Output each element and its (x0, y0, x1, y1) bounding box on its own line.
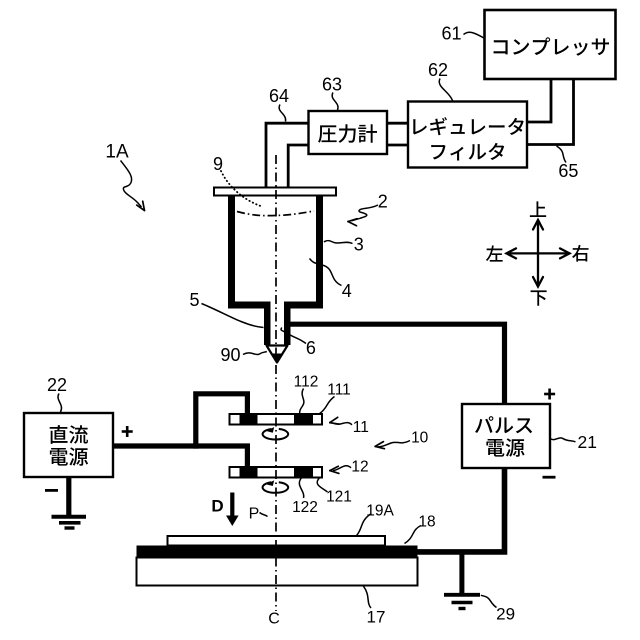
DC supply text line2 (50, 447, 88, 465)
leader 22 (58, 394, 62, 413)
syringe right wall (316, 196, 323, 309)
svg-text:4: 4 (342, 281, 352, 301)
leader 4 (310, 259, 342, 286)
rotation arrow lower (263, 480, 289, 492)
pipe 64 upper line (flange to gauge) (266, 123, 309, 188)
pressure gauge text (318, 124, 377, 143)
wire nozzle to pulse supply (289, 324, 505, 404)
DC supply ground wire (66, 477, 71, 515)
wire pulse supply to stage layer 18 (412, 468, 505, 552)
pulse supply text line2 (486, 438, 524, 456)
DC ground symbol (52, 517, 87, 528)
leader 61 (464, 32, 485, 38)
arrow D (downward movement) (226, 493, 239, 527)
pipe 65 upper line (regulator to compressor) (527, 79, 551, 122)
leader 18 (405, 526, 422, 544)
svg-text:112: 112 (294, 374, 319, 391)
leader 6 (281, 328, 306, 344)
svg-text:61: 61 (441, 23, 461, 43)
pipe gauge to regulator upper (387, 122, 408, 125)
svg-text:64: 64 (269, 86, 289, 106)
regulator-filter box 62 (408, 102, 527, 168)
liquid meniscus dash-dot line 9 (237, 211, 314, 216)
svg-text:12: 12 (351, 459, 368, 476)
leader 90 (243, 352, 267, 355)
leader 3 (324, 240, 353, 243)
plus sign DC supply (122, 426, 133, 437)
wire DC supply to lower electrode 12 (113, 446, 247, 469)
svg-text:29: 29 (496, 605, 515, 624)
DC supply text line1 (50, 425, 88, 444)
DC power supply box 22 (24, 413, 113, 477)
svg-text:5: 5 (189, 290, 199, 310)
svg-text:11: 11 (353, 419, 369, 436)
pulse power supply box 21 (462, 404, 550, 468)
minus sign DC supply (45, 489, 58, 492)
svg-text:122: 122 (292, 499, 318, 516)
stage 17 (137, 558, 418, 586)
svg-text:D: D (211, 497, 223, 516)
ground stub wire 29 (459, 552, 464, 594)
leader 62 (439, 79, 452, 101)
leader arrow 10 (375, 441, 410, 449)
leader arrow 1A (121, 161, 145, 211)
center axis dash-dot line C (275, 155, 277, 611)
svg-text:C: C (268, 611, 280, 628)
needle cone 90 outline (267, 346, 288, 363)
leader 121 (317, 478, 327, 492)
substrate 19A (168, 536, 386, 546)
syringe left shoulder (228, 302, 271, 309)
conductive layer 18 (137, 546, 418, 558)
svg-text:6: 6 (306, 338, 316, 358)
leader arrow 11 (330, 417, 352, 425)
regulator text line1 (413, 117, 524, 135)
syringe right shoulder (284, 302, 323, 309)
svg-text:2: 2 (378, 191, 388, 211)
minus sign pulse supply (543, 476, 556, 479)
plus sign pulse supply (544, 389, 555, 400)
leader 19A (357, 514, 372, 536)
filter text line2 (431, 143, 504, 161)
pulse supply text line1 (475, 416, 532, 433)
svg-text:22: 22 (47, 375, 67, 395)
leader 112 (300, 389, 304, 414)
leader 17 (364, 586, 372, 608)
svg-text:19A: 19A (366, 503, 394, 520)
compass label left (486, 245, 503, 261)
nozzle left wall 5 (264, 302, 271, 346)
svg-text:P: P (249, 506, 260, 523)
compass label up (530, 201, 546, 217)
svg-text:17: 17 (367, 608, 386, 627)
wire branch to upper electrode 11 (196, 394, 248, 449)
leader 5 (202, 304, 264, 328)
leader 65 (557, 146, 567, 163)
lower electrode bar 12 (230, 466, 323, 479)
pipe gauge to regulator lower (387, 144, 408, 147)
leader arrow 12 (330, 466, 351, 474)
compass label right (572, 245, 588, 262)
svg-text:65: 65 (558, 161, 578, 181)
pressure gauge box 63 (309, 111, 388, 154)
svg-text:1A: 1A (105, 142, 129, 163)
needle cone filled tip (272, 354, 282, 363)
leader 111 (320, 397, 335, 414)
leader 63 (332, 93, 338, 111)
pipe 65 lower line (527, 79, 574, 145)
pipe 64 lower line (288, 145, 308, 188)
leader arrow 2 (348, 205, 378, 226)
leader 64 (279, 105, 286, 122)
compressor label text (494, 37, 609, 55)
upper electrode bar 11 (230, 413, 323, 426)
leader 29 (481, 595, 497, 607)
svg-text:90: 90 (220, 345, 240, 365)
syringe flange 2 (214, 188, 336, 196)
dotted leader from label 9 (221, 171, 262, 207)
svg-text:62: 62 (428, 60, 448, 80)
nozzle right wall 6 (284, 302, 291, 346)
compass label down (531, 290, 547, 305)
svg-text:21: 21 (578, 432, 597, 452)
svg-text:121: 121 (326, 489, 352, 506)
direction compass (507, 220, 570, 287)
leader 122 (299, 478, 303, 498)
leader P (260, 513, 268, 517)
syringe left wall 3 (228, 196, 235, 309)
svg-text:9: 9 (213, 154, 223, 174)
svg-text:111: 111 (327, 382, 351, 399)
ground symbol 29 (444, 595, 480, 609)
svg-text:10: 10 (411, 430, 429, 447)
svg-text:63: 63 (322, 74, 342, 94)
compressor box 61 (485, 10, 616, 79)
leader 21 (551, 438, 576, 442)
svg-text:3: 3 (354, 234, 364, 254)
rotation arrow upper (263, 427, 289, 439)
svg-text:18: 18 (418, 514, 435, 531)
